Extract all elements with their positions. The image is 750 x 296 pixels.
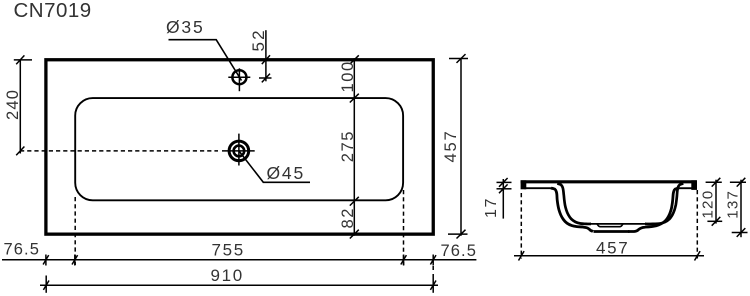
svg-text:17: 17 bbox=[483, 197, 500, 218]
side rim underside left bbox=[524, 187, 552, 189]
bowl outer wall left bbox=[551, 188, 593, 231]
svg-text:76.5: 76.5 bbox=[4, 241, 41, 259]
horizontal dashed centerline through drain bbox=[20, 150, 218, 152]
dimension 457 (plan right) bbox=[442, 54, 468, 238]
drain vertical centerline bbox=[238, 134, 240, 166]
bowl outer wall right bbox=[628, 188, 679, 231]
svg-text:100: 100 bbox=[339, 60, 357, 92]
svg-text:120: 120 bbox=[700, 190, 717, 219]
svg-text:910: 910 bbox=[211, 266, 244, 285]
dashed projection line side right bbox=[696, 190, 698, 259]
svg-text:82: 82 bbox=[339, 207, 357, 229]
dimension chain 100 / 275 / 82 (inner right) bbox=[339, 55, 359, 238]
svg-text:Ø35: Ø35 bbox=[166, 17, 204, 37]
svg-text:457: 457 bbox=[442, 130, 460, 163]
dashed projection line right bowl edge bbox=[403, 190, 405, 265]
dimension 240 (left) bbox=[4, 55, 32, 155]
side rim top line bbox=[521, 180, 697, 183]
drain horizontal centerline bbox=[222, 150, 255, 152]
leader line for faucet hole bbox=[169, 40, 242, 81]
recess hook left bbox=[597, 224, 600, 227]
bowl inner bottom surface line bbox=[589, 223, 646, 225]
bowl inner wall left bbox=[557, 183, 591, 224]
faucet hole horizontal centerline bbox=[228, 76, 250, 78]
leader line for drain hole bbox=[239, 151, 310, 182]
svg-text:52: 52 bbox=[249, 28, 268, 51]
svg-text:Ø45: Ø45 bbox=[267, 163, 305, 183]
washbasin outer rim (plan view rectangle) bbox=[46, 60, 433, 234]
svg-text:CN7019: CN7019 bbox=[14, 0, 92, 22]
dimension 52 (faucet from top edge) bbox=[249, 28, 272, 82]
faucet hole vertical centerline bbox=[238, 68, 240, 91]
svg-text:755: 755 bbox=[212, 241, 245, 260]
dashed projection line left bowl edge bbox=[74, 197, 76, 265]
faucet hole circle bbox=[232, 70, 246, 84]
svg-text:76.5: 76.5 bbox=[441, 242, 478, 260]
side rim left end cap bbox=[521, 180, 527, 189]
svg-text:275: 275 bbox=[339, 130, 357, 162]
dashed projection line side left bbox=[520, 193, 522, 259]
svg-text:457: 457 bbox=[596, 239, 629, 258]
dimension 137 (side right outer) bbox=[725, 178, 748, 237]
foot bottom line bbox=[594, 230, 630, 233]
recess hook right bbox=[620, 224, 623, 227]
svg-text:240: 240 bbox=[4, 89, 22, 120]
dimension 120 (side right) bbox=[700, 178, 723, 226]
dimension 17 (rim thickness) bbox=[483, 178, 512, 219]
bowl inner wall right bbox=[645, 183, 683, 224]
svg-text:137: 137 bbox=[725, 190, 742, 219]
bottom overall dimension line 910 bbox=[40, 266, 438, 293]
bottom dimension line (76.5 / 755 / 76.5) bbox=[2, 241, 477, 266]
basin bowl outline (rounded rectangle) bbox=[75, 98, 403, 200]
bowl recess bottom line bbox=[600, 226, 621, 228]
side rim right end cap bbox=[691, 180, 697, 190]
drain hole outer circle bbox=[229, 141, 249, 161]
drain hole inner circle bbox=[234, 146, 245, 157]
side rim underside right bbox=[679, 187, 694, 189]
dimension 457 (side bottom) bbox=[514, 239, 704, 261]
